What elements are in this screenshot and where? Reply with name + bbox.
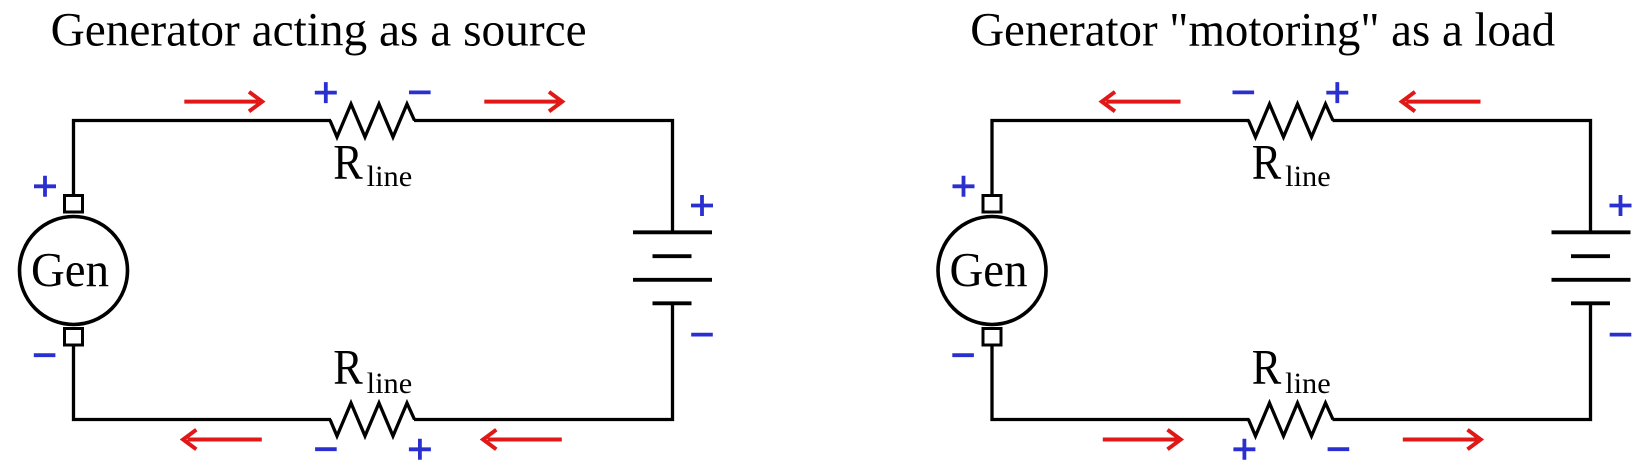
polarity - at bottom-right resistor right end [1328,447,1350,451]
polarity + at top-left resistor left end [315,82,337,103]
polarity - at top-left resistor right end [409,91,431,95]
svg-text:Gen: Gen [31,242,109,297]
wire top-right segment (top resistor to battery top, right circuit) [1333,121,1591,233]
svg-text:Generator "motoring" as a load: Generator "motoring" as a load [970,4,1555,57]
battery B1 short plate 1 [653,254,692,258]
battery B2 short plate 1 [1571,254,1610,258]
wire bottom-left segment (bottom resistor to gen bottom terminal, right circuit) [992,346,1250,420]
polarity - at gen G1 bottom [34,353,56,357]
wire bottom-right segment (battery bottom to bottom resistor) [414,303,673,420]
battery B1 short plate 2 [653,301,692,305]
polarity + at battery B1 top [691,195,713,216]
svg-text:R: R [1252,134,1282,190]
current arrow bottom-left (left) [183,430,262,450]
svg-text:line: line [1285,160,1331,193]
svg-text:line: line [367,160,413,193]
polarity + at gen G1 top [34,176,56,197]
svg-text:R: R [1252,339,1282,395]
polarity - at gen G2 bottom [952,353,974,357]
battery B1 long plate 2 [633,278,712,282]
battery B1 long plate 1 [633,230,712,234]
wire bottom-right segment (battery bottom to bottom resistor, right circuit) [1333,303,1591,420]
resistor R_line top-left zigzag [330,104,415,137]
polarity + at gen G2 top [953,176,975,197]
battery B2 plates [1552,232,1631,303]
battery B2 short plate 2 [1571,301,1610,305]
polarity - at battery B1 bottom [691,333,713,337]
resistor R_line bottom-left zigzag [330,403,415,436]
current arrow top-left (right) [184,92,262,112]
generator G1 top terminal square [65,196,83,213]
current arrow top-left (left, right circuit) [1102,92,1181,112]
wire top-right segment (top resistor to battery top) [414,121,673,233]
wire top-left segment (gen top terminal to top resistor, right circuit) [992,121,1250,195]
generator G2 top terminal square [983,196,1001,213]
current arrow top-right (right) [484,92,562,112]
current arrow bottom-right (left) [483,430,562,450]
generator G2 circle [938,217,1046,325]
polarity - at top-right resistor left end [1233,91,1255,95]
generator G1 circle [20,217,128,325]
resistor R_line top-right zigzag [1249,104,1334,137]
wire top-left segment (gen top terminal to top resistor) [74,121,332,195]
polarity + at top-right resistor right end [1326,82,1348,103]
svg-text:R: R [333,134,363,190]
generator G1 bottom terminal square [65,329,83,346]
battery B2 long plate 1 [1552,230,1631,234]
svg-text:line: line [1285,367,1331,400]
svg-text:Gen: Gen [950,242,1028,297]
polarity + at battery B2 top [1610,195,1632,216]
polarity - at battery B2 bottom [1610,333,1632,337]
svg-text:Generator acting as a source: Generator acting as a source [51,4,587,57]
current arrow top-right (left, right circuit) [1402,92,1481,112]
svg-text:line: line [367,367,413,400]
resistor R_line bottom-right zigzag [1249,403,1334,436]
battery B2 long plate 2 [1552,278,1631,282]
polarity - at bottom-left resistor left end [315,447,337,451]
polarity + at bottom-left resistor right end [409,439,431,460]
current arrow bottom-left (right, right circuit) [1103,430,1181,450]
battery B1 plates [633,232,712,303]
current arrow bottom-right (right, right circuit) [1403,430,1481,450]
svg-text:R: R [333,339,363,395]
wire bottom-left segment (bottom resistor to gen bottom terminal) [74,346,332,420]
polarity + at bottom-right resistor left end [1233,439,1255,460]
generator G2 bottom terminal square [983,329,1001,346]
